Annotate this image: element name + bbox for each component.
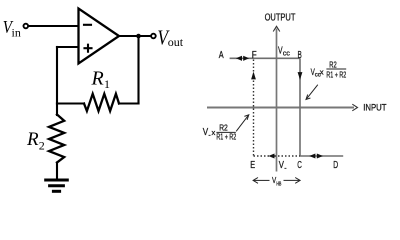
svg-text:R2: R2 — [329, 59, 337, 69]
svg-text:in: in — [12, 26, 21, 40]
svg-text:C: C — [297, 160, 302, 171]
svg-text:E: E — [250, 160, 255, 171]
svg-text:R: R — [26, 129, 39, 150]
svg-text:2: 2 — [39, 139, 45, 153]
svg-text:D: D — [333, 160, 338, 171]
svg-text:out: out — [168, 35, 184, 49]
svg-text:R1 + R2: R1 + R2 — [216, 132, 236, 142]
svg-text:A: A — [219, 50, 224, 61]
svg-text:1: 1 — [104, 77, 110, 91]
svg-text:B: B — [298, 50, 303, 61]
svg-text:R1 + R2: R1 + R2 — [326, 69, 346, 79]
svg-text:INPUT: INPUT — [363, 102, 387, 112]
svg-text:x: x — [212, 128, 216, 137]
svg-text:R: R — [91, 68, 104, 90]
svg-text:OUTPUT: OUTPUT — [265, 13, 296, 24]
svg-text:HB: HB — [276, 181, 281, 187]
svg-text:F: F — [252, 50, 257, 61]
svg-text:x: x — [320, 67, 324, 76]
svg-text:cc: cc — [283, 51, 291, 58]
